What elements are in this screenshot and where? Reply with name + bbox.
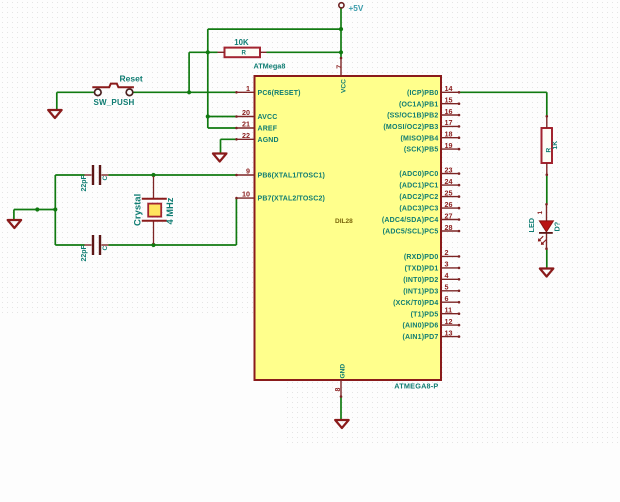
svg-text:Crystal: Crystal — [133, 194, 144, 226]
svg-text:(TXD)PD1: (TXD)PD1 — [405, 266, 439, 273]
svg-text:Reset: Reset — [120, 74, 143, 84]
svg-text:D?: D? — [553, 221, 562, 231]
svg-text:(AIN1)PD7: (AIN1)PD7 — [402, 334, 438, 341]
svg-text:18: 18 — [445, 130, 453, 139]
svg-text:(SCK)PB5: (SCK)PB5 — [404, 147, 439, 154]
svg-text:ATMega8: ATMega8 — [254, 61, 286, 70]
svg-text:AVCC: AVCC — [258, 114, 278, 121]
svg-text:11: 11 — [445, 306, 453, 315]
svg-text:4: 4 — [445, 271, 449, 280]
svg-text:1K: 1K — [552, 141, 559, 150]
svg-text:(OC1A)PB1: (OC1A)PB1 — [399, 101, 439, 108]
svg-text:2: 2 — [445, 248, 449, 257]
svg-text:(ADC2)PC2: (ADC2)PC2 — [399, 194, 438, 201]
svg-text:26: 26 — [445, 200, 453, 209]
svg-text:(INT1)PD3: (INT1)PD3 — [403, 288, 438, 295]
svg-text:13: 13 — [445, 328, 453, 337]
svg-text:(ADC3)PC3: (ADC3)PC3 — [399, 206, 438, 213]
svg-text:PB6(XTAL1/TOSC1): PB6(XTAL1/TOSC1) — [258, 173, 326, 180]
svg-text:12: 12 — [445, 317, 453, 326]
svg-text:8: 8 — [335, 388, 342, 392]
svg-text:(AIN0)PD6: (AIN0)PD6 — [402, 323, 438, 330]
svg-text:17: 17 — [445, 118, 453, 127]
svg-text:(RXD)PD0: (RXD)PD0 — [404, 254, 439, 261]
svg-text:R: R — [242, 50, 247, 57]
svg-text:DIL28: DIL28 — [335, 218, 353, 225]
svg-text:+5V: +5V — [349, 4, 364, 13]
svg-text:1: 1 — [246, 84, 250, 93]
svg-text:C: C — [102, 176, 109, 181]
svg-text:5: 5 — [445, 283, 449, 292]
svg-text:27: 27 — [445, 211, 453, 220]
svg-text:AGND: AGND — [258, 137, 279, 144]
svg-text:(XCK/T0)PD4: (XCK/T0)PD4 — [393, 300, 438, 307]
svg-text:20: 20 — [242, 108, 250, 117]
svg-text:SW_PUSH: SW_PUSH — [94, 98, 135, 107]
svg-text:(SS/OC1B)PB2: (SS/OC1B)PB2 — [387, 113, 438, 120]
svg-text:(INT0)PD2: (INT0)PD2 — [403, 277, 438, 284]
svg-text:(ADC4/SDA)PC4: (ADC4/SDA)PC4 — [382, 217, 439, 224]
svg-text:(ADC5/SCL)PC5: (ADC5/SCL)PC5 — [383, 229, 439, 236]
svg-text:4 MHz: 4 MHz — [165, 197, 175, 224]
svg-text:10: 10 — [242, 190, 250, 199]
svg-text:16: 16 — [445, 107, 453, 116]
svg-text:(T1)PD5: (T1)PD5 — [411, 311, 439, 318]
svg-text:(ADC1)PC1: (ADC1)PC1 — [399, 183, 438, 190]
svg-text:(ADC0)PC0: (ADC0)PC0 — [399, 171, 438, 178]
svg-text:GND: GND — [340, 364, 347, 379]
svg-text:28: 28 — [445, 223, 453, 232]
svg-text:19: 19 — [445, 141, 453, 150]
svg-text:15: 15 — [445, 96, 453, 105]
svg-text:6: 6 — [445, 294, 449, 303]
svg-text:24: 24 — [445, 177, 453, 186]
svg-text:22: 22 — [242, 131, 250, 140]
svg-text:7: 7 — [335, 65, 344, 69]
svg-text:10K: 10K — [234, 38, 249, 47]
svg-text:ATMEGA8-P: ATMEGA8-P — [394, 382, 438, 391]
svg-text:3: 3 — [445, 260, 449, 269]
svg-text:(MOSI/OC2)PB3: (MOSI/OC2)PB3 — [383, 124, 438, 131]
svg-text:AREF: AREF — [258, 126, 278, 133]
svg-text:(MISO)PB4: (MISO)PB4 — [401, 135, 439, 142]
svg-text:25: 25 — [445, 188, 453, 197]
svg-text:22pF: 22pF — [81, 244, 88, 261]
svg-text:14: 14 — [445, 84, 453, 93]
svg-text:(ICP)PB0: (ICP)PB0 — [407, 90, 439, 97]
svg-text:9: 9 — [246, 167, 250, 176]
svg-text:PB7(XTAL2/TOSC2): PB7(XTAL2/TOSC2) — [258, 196, 326, 203]
svg-text:PC6(RESET): PC6(RESET) — [258, 90, 301, 97]
svg-text:22pF: 22pF — [81, 174, 88, 191]
svg-text:21: 21 — [242, 120, 250, 129]
svg-text:LED: LED — [527, 218, 536, 233]
svg-text:VCC: VCC — [341, 79, 348, 93]
svg-text:23: 23 — [445, 165, 453, 174]
svg-text:1: 1 — [537, 211, 544, 215]
svg-text:C: C — [102, 246, 109, 251]
